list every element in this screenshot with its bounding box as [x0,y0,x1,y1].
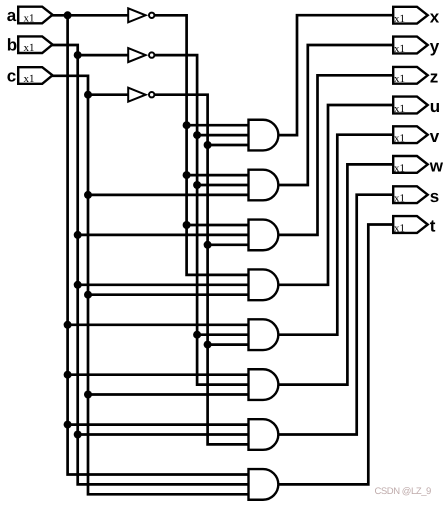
output pin s symbol [393,186,428,203]
junction a bus / G5 input 1 [64,321,72,329]
inverter U3 [128,88,154,102]
svg-text:x1: x1 [24,12,35,24]
output pin w symbol [393,156,428,173]
wire G5 input 3 from nc [208,343,250,346]
svg-text:x1: x1 [394,13,405,25]
wire nb: U2 output bus down to AND G6 input 2 [156,55,250,385]
wire G3 input 2 from b bus [78,234,250,237]
wire G4 input 2 from b bus [78,283,250,286]
inverter U2 [128,48,154,62]
junction nb / G1 input 2 [193,131,201,139]
svg-text:u: u [430,97,440,116]
wire G7 input 1 from a bus [68,423,250,426]
AND gate G8 [249,469,279,500]
svg-text:z: z [430,67,439,86]
svg-text:c: c [7,67,16,86]
output pin t symbol [393,216,428,233]
svg-text:s: s [430,187,439,206]
wire G1 input 3 from nc [208,144,250,147]
wire G5 input 2 from nb [197,333,249,336]
junction a bus / U1 input [64,11,72,19]
junction na / G2 input 1 [183,171,191,179]
wire G8 output to pin t [277,225,394,485]
wire G2 output to pin y [277,45,394,185]
junction b bus / G3 input 2 [74,231,82,239]
junction na / G1 input 1 [183,121,191,129]
output pin u symbol [393,97,428,114]
svg-text:x1: x1 [394,73,405,85]
svg-text:x1: x1 [394,43,405,55]
junction c bus / G4 input 3 [84,291,92,299]
junction b bus / G7 input 2 [74,431,82,439]
svg-text:x1: x1 [24,42,35,54]
svg-text:x1: x1 [394,103,405,115]
junction c bus / G2 input 3 [84,191,92,199]
junction c bus / U3 input [84,91,92,99]
wire G1 output to pin x [277,15,394,135]
svg-text:x1: x1 [394,162,405,174]
AND gate G1 [249,120,279,151]
wire G1 input 1 from na [187,124,250,127]
svg-text:x1: x1 [394,193,405,205]
AND gate G6 [249,369,279,400]
input pin a symbol [18,7,52,24]
wire na: U1 output bus down to AND G4 input 1 [156,15,250,275]
AND gate G7 [249,419,279,450]
junction a bus / G7 input 1 [64,421,72,429]
junction nc / G5 input 3 [204,341,212,349]
svg-text:y: y [430,37,440,56]
wire G7 output to pin s [277,195,394,435]
wire c branch to inverter U3 input [88,93,128,96]
wire G1 input 2 from nb [197,134,249,137]
AND gate G5 [249,319,279,350]
svg-text:t: t [430,217,436,236]
wire G3 input 3 from nc [208,243,250,246]
wire nc: U3 output bus down to AND G7 input 3 [156,95,250,445]
junction nc / G3 input 3 [204,241,212,249]
wire G7 input 2 from b bus [78,433,250,436]
svg-text:w: w [429,157,444,176]
input pin c symbol [18,67,52,84]
output pin x symbol [393,7,428,24]
output pin z symbol [393,67,428,84]
svg-text:v: v [430,127,440,146]
svg-text:x1: x1 [24,73,35,85]
junction nc / G1 input 3 [204,141,212,149]
output pin v symbol [393,126,428,143]
wire c: pin c to c bus, down to AND G8 input 3 [53,76,250,495]
wire G6 input 3 from c bus [88,393,250,396]
AND gate G3 [249,220,279,251]
svg-text:CSDN @LZ_9: CSDN @LZ_9 [375,486,432,497]
junction nb / G2 input 2 [193,181,201,189]
wire G5 input 1 from a bus [68,323,250,326]
junction nb / G5 input 2 [193,331,201,339]
svg-text:x1: x1 [394,133,405,145]
wire b branch to inverter U2 input [78,54,129,57]
wire G2 input 2 from nb [197,184,249,187]
wire a: pin a to inverter U1 input [53,14,129,17]
wire G5 output to pin v [277,135,394,335]
wire G2 input 3 from c bus [88,194,250,197]
wire a vertical bus down to AND G8 input 1 [68,15,250,474]
input pin b symbol [18,36,52,53]
junction b bus / G4 input 2 [74,281,82,289]
svg-text:b: b [7,36,17,55]
wire G2 input 1 from na [187,174,250,177]
junction c bus / G6 input 3 [84,391,92,399]
junction na / G3 input 1 [183,221,191,229]
output pin y symbol [393,37,428,54]
junction a bus / G6 input 1 [64,371,72,379]
svg-text:x1: x1 [394,222,405,234]
wire G6 output to pin w [277,164,394,384]
wire G6 input 1 from a bus [68,373,250,376]
wire G3 input 1 from na [187,224,250,227]
junction b bus / U2 input [74,51,82,59]
svg-text:a: a [7,6,17,25]
AND gate G2 [249,170,279,201]
inverter U1 [128,8,154,22]
svg-text:x: x [430,7,440,26]
wire b: pin b to b bus, down to AND G8 input 2 [53,45,250,484]
wire G3 output to pin z [277,75,394,235]
AND gate G4 [249,269,279,300]
wire G4 output to pin u [277,105,394,285]
wire G4 input 3 from c bus [88,293,250,296]
